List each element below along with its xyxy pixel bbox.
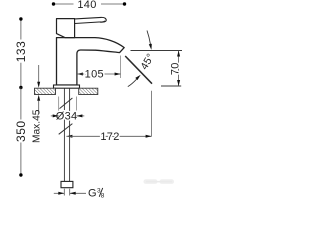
G3/8 nut [61,181,73,187]
countertop right hatched block [79,88,98,94]
G3/8 extension ticks [63,189,65,196]
svg-text:Max.45: Max.45 [32,109,43,143]
faucet body and spout outline [57,38,125,85]
172 right extension line [151,91,153,137]
svg-text:105: 105 [85,69,104,81]
horizontal reference line at outlet [131,50,183,52]
outlet extension line [120,56,122,79]
watermark [144,179,158,184]
dimension 133 line [20,19,22,40]
hose break slash upper [60,98,73,109]
countertop left hatched block [35,88,56,94]
handle lever bar [75,17,107,23]
Max.45 upper arrow [38,65,40,82]
70 bottom reference line [161,85,181,87]
svg-text:G: G [88,188,97,200]
dimension 140 line [54,3,74,5]
svg-text:140: 140 [77,0,96,11]
dimension 350 line [20,88,22,120]
svg-text:70: 70 [169,62,181,75]
diameter 34 arrows [51,115,59,117]
dimension 105 [77,73,83,76]
svg-text:172: 172 [100,131,119,143]
diameter 34 extension lines [58,97,60,120]
dimension 70 [178,51,180,87]
lower leader arrow to stream line [128,79,137,86]
hose break slash lower [59,124,73,135]
supply hose [63,88,65,181]
svg-text:8: 8 [101,192,105,199]
45 degree stream line [125,56,152,84]
G3/8 arrows [54,192,65,194]
svg-text:Ø34: Ø34 [56,111,78,123]
upper leader arrow to reference line [147,31,151,45]
svg-text:45°: 45° [138,52,157,72]
svg-text:133: 133 [14,41,28,63]
dimension 172 [66,135,72,138]
handle block [57,19,75,38]
base flange [54,85,80,88]
Max.45 lower arrow [37,95,40,101]
svg-text:350: 350 [14,120,28,142]
